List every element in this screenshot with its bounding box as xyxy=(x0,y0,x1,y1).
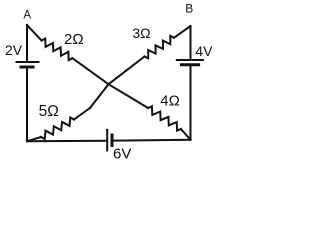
wire: left side below battery V1 to bottom-left corner xyxy=(26,69,28,142)
resistor R2 3 ohm zigzag xyxy=(145,36,175,58)
wire: right side from battery V2 up to node B xyxy=(190,26,192,59)
wire: node A to resistor R1 xyxy=(27,25,42,41)
wire: bend to resistor R3 xyxy=(74,108,90,120)
svg-text:5Ω: 5Ω xyxy=(39,103,59,120)
battery V2 long plate xyxy=(177,59,203,61)
svg-text:4Ω: 4Ω xyxy=(160,92,180,109)
wire: center crossing to bend xyxy=(90,84,109,108)
wire: bottom from battery V3 to bottom-right corner xyxy=(113,139,191,142)
wire: node B to resistor R2 xyxy=(174,26,191,38)
svg-text:3Ω: 3Ω xyxy=(132,25,150,41)
resistor R3 5 ohm zigzag xyxy=(41,118,74,140)
battery V2 short plate xyxy=(181,63,198,66)
svg-text:2Ω: 2Ω xyxy=(64,31,84,48)
wire: center crossing to resistor R4 xyxy=(109,84,149,108)
resistor R4 4 ohm zigzag xyxy=(148,106,181,130)
svg-text:A: A xyxy=(23,10,31,22)
svg-text:4V: 4V xyxy=(195,43,213,59)
battery V3 long plate xyxy=(106,130,108,151)
battery V3 short plate xyxy=(111,135,114,146)
resistor R1 2 ohm zigzag xyxy=(42,39,73,61)
battery V1 long plate xyxy=(17,61,39,63)
wire: right side from bottom-right corner up to battery V2 xyxy=(190,66,192,140)
svg-text:6V: 6V xyxy=(113,146,131,163)
wire: resistor R3 to bottom-left corner xyxy=(27,137,41,141)
svg-text:2V: 2V xyxy=(5,42,23,58)
wire: resistor R1 to center crossing xyxy=(72,58,108,84)
wire: bottom from left corner to battery V3 xyxy=(27,140,106,143)
wire: left side from node A down to battery V1 xyxy=(26,25,28,61)
wire: resistor R4 to bottom-right corner xyxy=(181,129,191,140)
wire: resistor R2 to center crossing xyxy=(109,57,145,85)
battery V1 short plate xyxy=(21,66,33,69)
svg-text:B: B xyxy=(185,1,193,15)
